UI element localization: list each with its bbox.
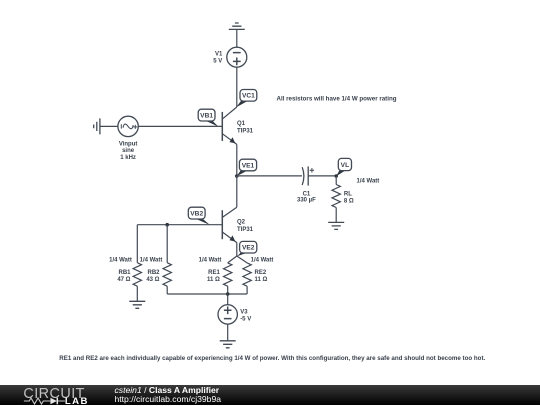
svg-text:TIP31: TIP31	[237, 129, 254, 135]
transistor Q2 TIP31	[222, 207, 253, 242]
svg-text:RE1 and RE2 are each individua: RE1 and RE2 are each individually capabl…	[59, 355, 485, 362]
resistor RE2 11 ohm	[243, 263, 268, 294]
ground (below RB1)	[129, 301, 145, 308]
svg-text:5 V: 5 V	[213, 58, 222, 64]
wire (Q2 emitter to node VE2)	[236, 243, 238, 256]
wire (Q1 emitter to node VE1)	[236, 144, 238, 176]
svg-text:43 Ω: 43 Ω	[146, 277, 159, 283]
node VC1	[236, 90, 257, 108]
svg-text:Q1: Q1	[237, 121, 246, 127]
svg-text:V3: V3	[240, 310, 248, 316]
svg-text:VC1: VC1	[242, 93, 255, 100]
capacitor C1 330 uF	[297, 166, 316, 203]
svg-text:RB1: RB1	[118, 270, 131, 276]
node VE2	[237, 241, 257, 256]
resistor RE1 11 ohm	[207, 263, 232, 294]
svg-text:RL: RL	[344, 191, 352, 197]
resistor RB2 43 ohm	[146, 225, 171, 294]
resistor RB1 47 ohm	[117, 225, 141, 302]
junction (RB2 top)	[165, 223, 169, 227]
wire (bottom rail RB2-RE1-RE2)	[167, 293, 247, 295]
svg-text:TIP31: TIP31	[237, 227, 254, 233]
node VL	[334, 158, 351, 177]
footer text	[115, 385, 222, 404]
CircuitLab logo	[0, 385, 110, 406]
svg-text:11 Ω: 11 Ω	[255, 277, 268, 283]
footer bar	[0, 385, 540, 406]
svg-text:sine: sine	[122, 148, 135, 154]
svg-text:-5 V: -5 V	[240, 317, 251, 323]
svg-text:RE2: RE2	[255, 270, 267, 276]
voltage source V1	[213, 47, 247, 67]
transistor Q1 TIP31	[222, 107, 253, 144]
svg-text:1/4 Watt: 1/4 Watt	[251, 258, 274, 264]
node VE1	[235, 159, 257, 178]
svg-text:1/4 Watt: 1/4 Watt	[199, 258, 222, 264]
wire	[236, 67, 238, 107]
wire	[236, 29, 238, 47]
svg-text:LAB: LAB	[65, 396, 89, 406]
voltage source Vinput sine 1 kHz	[118, 116, 138, 161]
wire	[227, 324, 229, 341]
svg-text:RE1: RE1	[208, 270, 220, 276]
svg-text:VL: VL	[341, 162, 349, 169]
svg-text:V1: V1	[215, 51, 223, 57]
svg-text:VB1: VB1	[200, 113, 213, 120]
svg-text:8 Ω: 8 Ω	[344, 198, 354, 204]
node VB2	[188, 207, 210, 225]
svg-text:VE2: VE2	[242, 245, 255, 252]
svg-text:47 Ω: 47 Ω	[117, 277, 130, 283]
svg-text:330 µF: 330 µF	[297, 197, 316, 203]
wire (Vinput to Q1 base)	[138, 125, 222, 127]
svg-text:All resistors will have 1/4 W: All resistors will have 1/4 W power rati…	[277, 95, 397, 102]
junction (V3 top)	[226, 292, 230, 296]
voltage source V3 -5 V	[218, 294, 251, 324]
svg-text:11 Ω: 11 Ω	[207, 277, 220, 283]
wire	[100, 125, 118, 127]
wire (VE2 split to RE1/RE2)	[228, 256, 247, 263]
svg-text:RB2: RB2	[147, 270, 160, 276]
wire (bias rail to Q2 base)	[137, 224, 222, 226]
svg-text:1/4 Watt: 1/4 Watt	[140, 258, 163, 264]
svg-text:1 kHz: 1 kHz	[120, 155, 136, 161]
node VB1	[198, 109, 218, 127]
wire (VE1 to Q2 collector)	[236, 176, 238, 207]
wire (VE1 to C1)	[237, 175, 302, 177]
ground (below V3)	[220, 341, 236, 348]
svg-text:1/4 Watt: 1/4 Watt	[109, 258, 132, 264]
svg-text:VB2: VB2	[190, 211, 203, 218]
svg-text:Q2: Q2	[237, 219, 246, 225]
ground (input source)	[94, 118, 100, 134]
ground (below RL)	[328, 222, 344, 229]
wire (C1 to node VL)	[308, 175, 336, 177]
svg-text:1/4 Watt: 1/4 Watt	[357, 179, 380, 185]
resistor RL 8 ohm	[332, 176, 354, 222]
svg-text:VE1: VE1	[242, 162, 255, 169]
ground (top, at V1 positive rail)	[229, 23, 245, 29]
svg-text:Vinput: Vinput	[119, 141, 138, 147]
